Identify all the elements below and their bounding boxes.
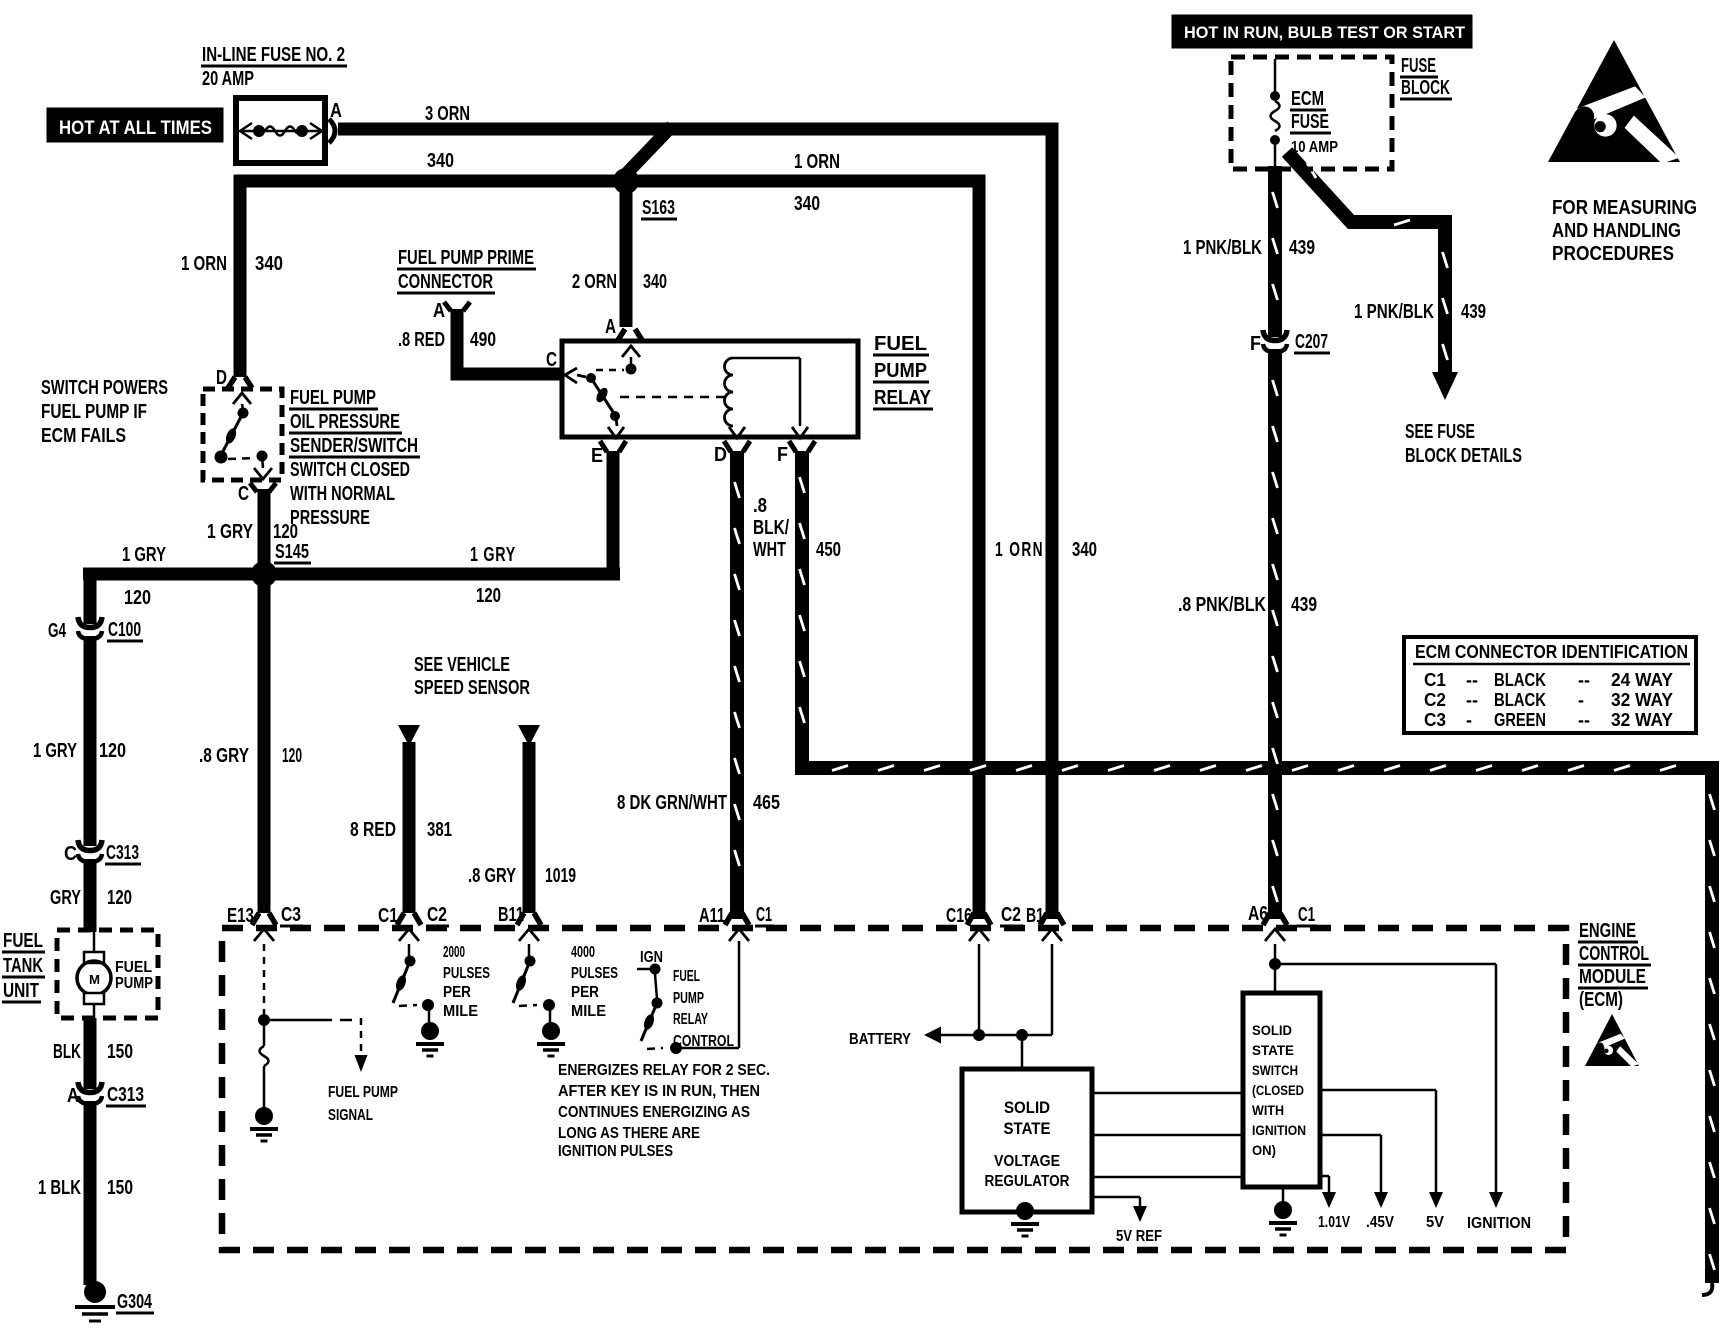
svg-text:PUMP: PUMP	[673, 990, 704, 1007]
svg-text:1 GRY: 1 GRY	[33, 740, 77, 762]
svg-text:439: 439	[1461, 301, 1486, 323]
svg-text:LONG AS THERE ARE: LONG AS THERE ARE	[558, 1125, 700, 1142]
svg-text:1 GRY: 1 GRY	[122, 544, 166, 566]
svg-text:1 BLK: 1 BLK	[38, 1177, 81, 1199]
svg-text:BLK/: BLK/	[753, 517, 789, 539]
svg-text:BLACK: BLACK	[1494, 690, 1546, 710]
svg-text:150: 150	[107, 1041, 133, 1063]
svg-text:A: A	[605, 316, 616, 338]
svg-text:PUMP: PUMP	[115, 975, 153, 992]
svg-text:SOLID: SOLID	[1252, 1022, 1292, 1038]
svg-text:1 PNK/BLK: 1 PNK/BLK	[1183, 237, 1262, 259]
svg-text:A11: A11	[699, 905, 725, 927]
svg-text:340: 340	[427, 150, 454, 172]
svg-text:SIGNAL: SIGNAL	[328, 1107, 373, 1124]
svg-text:C1: C1	[1424, 670, 1446, 690]
svg-text:490: 490	[470, 329, 496, 351]
svg-text:ECM FAILS: ECM FAILS	[41, 425, 126, 447]
svg-text:F: F	[1250, 333, 1261, 355]
svg-text:TANK: TANK	[3, 955, 43, 977]
svg-text:GREEN: GREEN	[1494, 710, 1546, 730]
svg-text:(CLOSED: (CLOSED	[1252, 1082, 1304, 1098]
svg-text:.8 GRY: .8 GRY	[199, 745, 250, 767]
svg-text:G4: G4	[48, 620, 67, 642]
svg-text:PULSES: PULSES	[571, 965, 618, 982]
svg-text:FUEL PUMP IF: FUEL PUMP IF	[41, 401, 147, 423]
svg-text:BLK: BLK	[53, 1041, 81, 1063]
svg-text:FUEL PUMP PRIME: FUEL PUMP PRIME	[398, 247, 534, 269]
svg-text:F: F	[777, 444, 788, 466]
svg-text:SEE FUSE: SEE FUSE	[1405, 421, 1475, 443]
svg-text:.45V: .45V	[1366, 1214, 1394, 1231]
svg-text:C313: C313	[107, 1084, 144, 1106]
svg-text:IGNITION PULSES: IGNITION PULSES	[558, 1143, 673, 1160]
svg-text:2 ORN: 2 ORN	[572, 271, 617, 293]
svg-text:BLOCK: BLOCK	[1401, 77, 1450, 99]
svg-text:D: D	[216, 367, 227, 389]
svg-text:381: 381	[427, 819, 452, 841]
svg-text:PUMP: PUMP	[874, 360, 927, 382]
svg-text:FUEL: FUEL	[3, 930, 43, 952]
svg-text:SEE VEHICLE: SEE VEHICLE	[414, 654, 510, 676]
svg-text:120: 120	[99, 740, 126, 762]
svg-text:FUEL: FUEL	[874, 333, 927, 355]
svg-text:340: 340	[643, 271, 667, 293]
svg-text:5V: 5V	[1426, 1214, 1444, 1231]
svg-text:AFTER KEY IS IN RUN, THEN: AFTER KEY IS IN RUN, THEN	[558, 1083, 760, 1100]
svg-text:120: 120	[107, 887, 132, 909]
svg-text:.8 PNK/BLK: .8 PNK/BLK	[1178, 594, 1266, 616]
svg-text:ECM CONNECTOR IDENTIFICATION: ECM CONNECTOR IDENTIFICATION	[1415, 642, 1688, 662]
svg-text:STATE: STATE	[1252, 1042, 1294, 1058]
svg-text:(ECM): (ECM)	[1579, 989, 1623, 1011]
svg-text:C: C	[238, 483, 249, 505]
svg-text:8 DK GRN/WHT: 8 DK GRN/WHT	[617, 792, 727, 814]
svg-text:IGNITION: IGNITION	[1252, 1122, 1306, 1138]
svg-text:2000: 2000	[443, 944, 465, 961]
svg-text:VOLTAGE: VOLTAGE	[994, 1153, 1060, 1170]
svg-text:1 PNK/BLK: 1 PNK/BLK	[1354, 301, 1434, 323]
svg-text:G304: G304	[117, 1291, 153, 1313]
svg-text:FUEL: FUEL	[673, 968, 700, 985]
svg-text:FUSE: FUSE	[1291, 111, 1329, 133]
svg-text:120: 120	[476, 585, 501, 607]
svg-text:120: 120	[124, 587, 151, 609]
svg-text:1 ORN: 1 ORN	[181, 253, 227, 275]
svg-text:PROCEDURES: PROCEDURES	[1552, 243, 1674, 265]
svg-text:-: -	[1466, 710, 1472, 730]
svg-text:340: 340	[255, 253, 283, 275]
svg-text:IN-LINE FUSE NO. 2: IN-LINE FUSE NO. 2	[202, 44, 345, 66]
svg-text:439: 439	[1289, 237, 1315, 259]
svg-text:BLACK: BLACK	[1494, 670, 1546, 690]
svg-text:ON): ON)	[1252, 1142, 1276, 1158]
svg-text:PER: PER	[571, 984, 599, 1001]
svg-text:C2: C2	[1001, 904, 1021, 926]
svg-text:340: 340	[794, 193, 820, 215]
svg-text:SWITCH POWERS: SWITCH POWERS	[41, 377, 168, 399]
svg-text:24 WAY: 24 WAY	[1611, 670, 1673, 690]
svg-text:PER: PER	[443, 984, 471, 1001]
svg-text:HOT AT ALL TIMES: HOT AT ALL TIMES	[59, 118, 212, 139]
svg-text:SOLID: SOLID	[1004, 1098, 1050, 1117]
svg-text:465: 465	[753, 792, 780, 814]
svg-text:IGNITION: IGNITION	[1467, 1215, 1531, 1232]
svg-text:PULSES: PULSES	[443, 965, 490, 982]
svg-text:AND HANDLING: AND HANDLING	[1552, 220, 1681, 242]
svg-text:STATE: STATE	[1004, 1119, 1051, 1138]
svg-text:4000: 4000	[571, 944, 595, 961]
svg-text:BATTERY: BATTERY	[849, 1031, 911, 1048]
svg-text:FUEL: FUEL	[115, 959, 152, 976]
svg-text:CONTROL: CONTROL	[673, 1033, 734, 1050]
svg-text:WITH NORMAL: WITH NORMAL	[290, 483, 395, 505]
svg-text:MODULE: MODULE	[1579, 966, 1646, 988]
svg-text:C2: C2	[427, 904, 447, 926]
svg-text:WHT: WHT	[753, 539, 786, 561]
svg-text:120: 120	[282, 745, 302, 767]
svg-text:S145: S145	[275, 541, 309, 563]
svg-text:1 GRY: 1 GRY	[470, 544, 516, 566]
svg-text:.8 GRY: .8 GRY	[468, 865, 516, 887]
svg-text:5V REF: 5V REF	[1116, 1228, 1162, 1245]
svg-text:CONTROL: CONTROL	[1579, 943, 1649, 965]
svg-text:1019: 1019	[545, 865, 576, 887]
svg-text:.8 RED: .8 RED	[398, 329, 445, 351]
svg-text:GRY: GRY	[50, 887, 81, 909]
svg-text:--: --	[1466, 690, 1478, 710]
svg-text:150: 150	[107, 1177, 133, 1199]
svg-text:C: C	[64, 843, 77, 865]
svg-text:C3: C3	[281, 904, 301, 926]
svg-text:32 WAY: 32 WAY	[1611, 690, 1673, 710]
svg-text:439: 439	[1291, 594, 1317, 616]
svg-text:1.01V: 1.01V	[1318, 1214, 1350, 1231]
svg-text:32 WAY: 32 WAY	[1611, 710, 1673, 730]
svg-text:3 ORN: 3 ORN	[425, 103, 470, 125]
svg-text:M: M	[89, 972, 100, 987]
svg-text:C313: C313	[106, 842, 139, 864]
svg-text:20 AMP: 20 AMP	[202, 68, 254, 90]
svg-text:340: 340	[1072, 539, 1097, 561]
svg-text:BLOCK DETAILS: BLOCK DETAILS	[1405, 445, 1522, 467]
svg-text:C1: C1	[1298, 904, 1315, 926]
svg-text:C100: C100	[108, 619, 141, 641]
svg-text:10 AMP: 10 AMP	[1291, 139, 1338, 156]
svg-text:SENDER/SWITCH: SENDER/SWITCH	[290, 435, 418, 457]
svg-text:CONTINUES ENERGIZING AS: CONTINUES ENERGIZING AS	[558, 1104, 750, 1121]
svg-text:1 GRY: 1 GRY	[207, 521, 254, 543]
svg-text:ENGINE: ENGINE	[1579, 920, 1636, 942]
svg-text:.8: .8	[753, 495, 767, 517]
svg-text:--: --	[1578, 710, 1590, 730]
svg-text:-: -	[1578, 690, 1584, 710]
svg-text:FUEL PUMP: FUEL PUMP	[290, 387, 376, 409]
svg-text:FOR MEASURING: FOR MEASURING	[1552, 197, 1697, 219]
svg-text:OIL PRESSURE: OIL PRESSURE	[290, 411, 400, 433]
svg-text:1 ORN: 1 ORN	[794, 151, 840, 173]
svg-text:--: --	[1466, 670, 1478, 690]
svg-text:REGULATOR: REGULATOR	[985, 1173, 1070, 1190]
svg-text:8 RED: 8 RED	[350, 819, 396, 841]
svg-text:RELAY: RELAY	[673, 1011, 708, 1028]
svg-text:C1: C1	[756, 904, 772, 926]
svg-text:120: 120	[273, 521, 298, 543]
svg-text:MILE: MILE	[443, 1003, 478, 1020]
svg-text:ECM: ECM	[1291, 88, 1324, 110]
svg-text:S163: S163	[642, 197, 675, 219]
svg-text:HOT IN RUN, BULB TEST OR START: HOT IN RUN, BULB TEST OR START	[1184, 23, 1466, 42]
svg-text:FUSE: FUSE	[1401, 55, 1436, 77]
svg-text:UNIT: UNIT	[3, 980, 39, 1002]
svg-text:E: E	[591, 445, 603, 467]
svg-text:SPEED SENSOR: SPEED SENSOR	[414, 677, 530, 699]
svg-text:CONNECTOR: CONNECTOR	[398, 271, 493, 293]
svg-text:--: --	[1578, 670, 1590, 690]
svg-text:C207: C207	[1295, 331, 1328, 353]
svg-text:1 ORN: 1 ORN	[995, 539, 1044, 561]
svg-text:C2: C2	[1424, 690, 1446, 710]
svg-text:450: 450	[816, 539, 841, 561]
svg-text:MILE: MILE	[571, 1003, 606, 1020]
svg-text:FUEL PUMP: FUEL PUMP	[328, 1084, 398, 1101]
svg-text:PRESSURE: PRESSURE	[290, 507, 370, 529]
svg-text:C: C	[546, 349, 557, 371]
svg-text:ENERGIZES RELAY FOR 2 SEC.: ENERGIZES RELAY FOR 2 SEC.	[558, 1062, 770, 1079]
svg-text:D: D	[714, 444, 727, 466]
svg-text:C3: C3	[1424, 710, 1446, 730]
svg-text:SWITCH: SWITCH	[1252, 1062, 1298, 1078]
svg-text:RELAY: RELAY	[874, 387, 932, 409]
svg-text:WITH: WITH	[1252, 1102, 1284, 1118]
svg-text:SWITCH CLOSED: SWITCH CLOSED	[290, 459, 410, 481]
svg-text:IGN: IGN	[640, 949, 663, 966]
